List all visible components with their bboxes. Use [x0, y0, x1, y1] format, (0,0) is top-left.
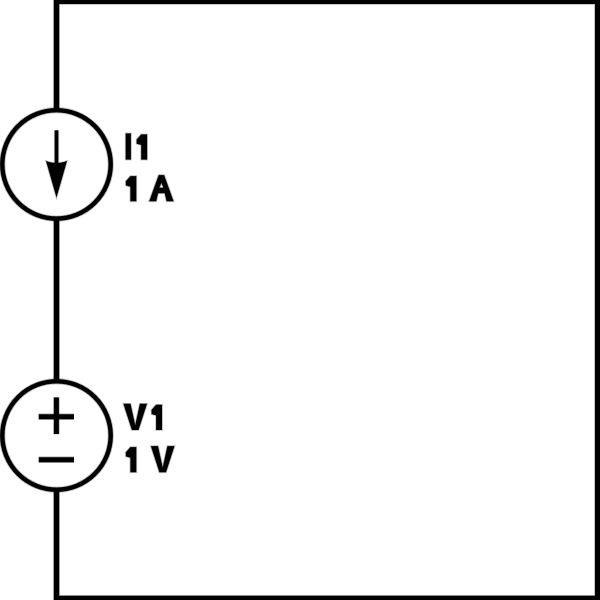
voltage source V1	[2, 381, 110, 489]
arrowhead	[46, 161, 67, 198]
arrow shaft	[54, 130, 59, 176]
wire between I1 and V1	[53, 219, 60, 382]
minus sign	[39, 456, 74, 463]
plus sign	[39, 413, 74, 420]
value 1 V	[126, 446, 175, 472]
value 1 A	[126, 175, 174, 201]
label I1	[126, 133, 147, 159]
label V1	[123, 404, 162, 430]
current source I1	[2, 110, 110, 218]
